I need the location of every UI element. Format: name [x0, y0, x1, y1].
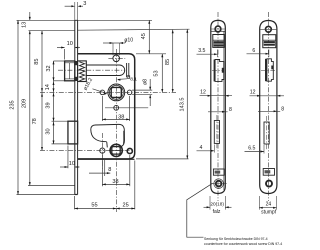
svg-text:12: 12 — [200, 90, 206, 96]
svg-text:10: 10 — [69, 161, 75, 167]
svg-text:ø10: ø10 — [124, 37, 133, 43]
svg-text:38: 38 — [118, 115, 124, 121]
svg-text:38: 38 — [112, 179, 118, 185]
svg-text:4: 4 — [199, 145, 202, 151]
svg-text:8: 8 — [229, 107, 232, 113]
svg-text:39: 39 — [46, 102, 52, 108]
svg-text:12: 12 — [250, 90, 256, 96]
svg-text:78: 78 — [32, 118, 38, 124]
svg-text:143.5: 143.5 — [179, 98, 185, 112]
svg-text:209: 209 — [21, 99, 27, 108]
svg-text:8.1: 8.1 — [130, 77, 137, 83]
svg-text:20(18): 20(18) — [210, 201, 224, 206]
svg-text:53: 53 — [153, 70, 159, 76]
svg-text:6.5: 6.5 — [248, 146, 255, 152]
svg-text:3.5: 3.5 — [198, 48, 205, 54]
svg-text:counterbore for countersunk wo: counterbore for countersunk wood screw D… — [204, 242, 282, 246]
svg-text:45: 45 — [141, 33, 147, 39]
svg-text:85: 85 — [165, 59, 171, 65]
svg-text:6: 6 — [252, 48, 255, 54]
svg-text:ø8: ø8 — [142, 79, 148, 85]
svg-text:10: 10 — [67, 41, 73, 47]
svg-text:25: 25 — [122, 203, 128, 209]
svg-text:85: 85 — [34, 58, 40, 64]
svg-text:55: 55 — [91, 203, 97, 209]
svg-text:falz: falz — [213, 209, 221, 215]
svg-text:30: 30 — [46, 128, 52, 134]
svg-text:Senkung für Senkholzschraube D: Senkung für Senkholzschraube DIN 97-4 — [204, 237, 268, 241]
svg-text:stumpf: stumpf — [261, 209, 277, 215]
svg-text:32: 32 — [46, 65, 52, 71]
svg-text:24: 24 — [266, 202, 272, 208]
svg-text:8: 8 — [281, 107, 284, 113]
svg-text:13: 13 — [22, 22, 28, 28]
svg-text:235: 235 — [10, 100, 16, 109]
svg-text:14: 14 — [45, 84, 51, 90]
svg-text:8: 8 — [108, 167, 111, 173]
svg-text:3: 3 — [83, 1, 86, 7]
